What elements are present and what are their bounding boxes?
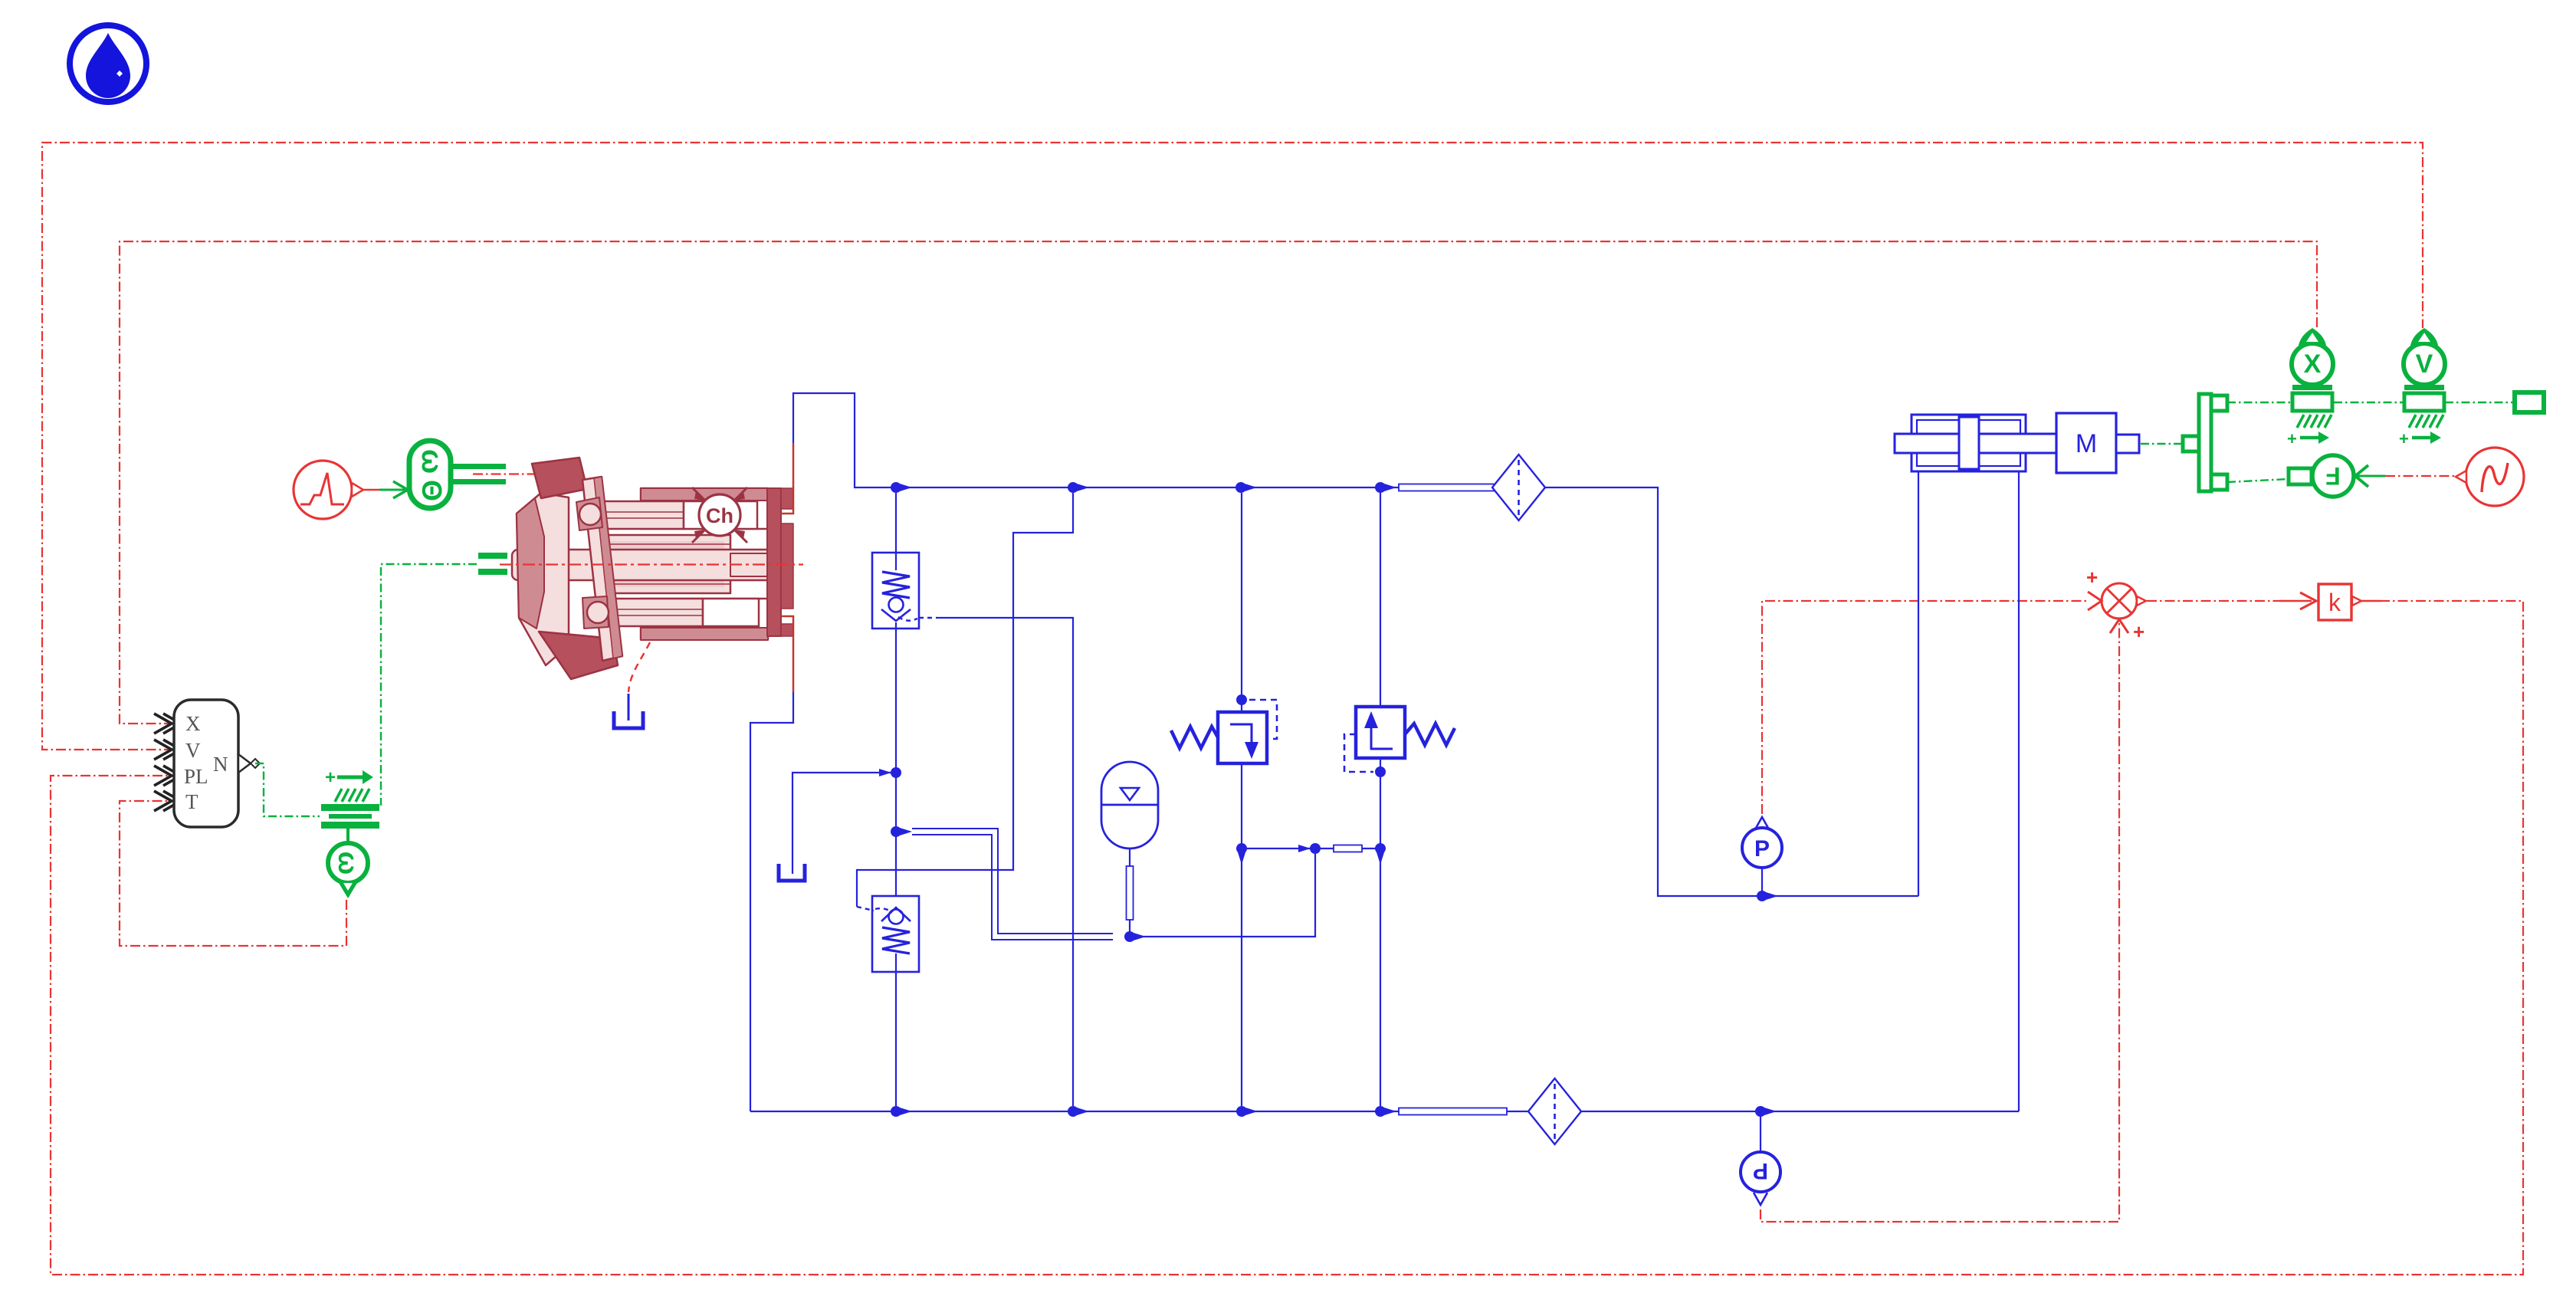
junction cylinder head line / P sensor	[1757, 891, 1778, 901]
displacement transducer X	[2292, 328, 2333, 385]
svg-text:+: +	[2133, 620, 2144, 643]
junction on pressure bus at relief valve 1	[1235, 482, 1257, 493]
svg-text:+: +	[325, 767, 336, 788]
junction relief valve 1 drain	[1236, 843, 1247, 865]
wire: pump outlet main pressure bus	[894, 487, 1918, 896]
svg-text:F: F	[2325, 462, 2341, 490]
wire: cylinder head side to P line	[1918, 471, 1919, 896]
pilot dashes of relief valve 1	[1249, 700, 1277, 739]
junction at tank branch	[879, 767, 901, 778]
svg-text:k: k	[2328, 589, 2341, 616]
svg-text:ω: ω	[415, 449, 448, 474]
tank: pump case drain reservoir	[614, 711, 643, 728]
hydraulic cylinder (double rod jack)	[1895, 415, 2056, 471]
junction on pressure bus at check valve branch	[891, 482, 912, 493]
gain block k	[2318, 584, 2381, 620]
wire: signal to speed converter (green)	[379, 481, 408, 498]
pressure sensor p (inverted)	[1741, 1114, 1780, 1205]
svg-text:X: X	[2304, 350, 2322, 379]
end stop element	[2515, 392, 2544, 412]
mechanical bracket (lever plate)	[2183, 394, 2227, 491]
svg-text:+: +	[2287, 429, 2297, 448]
relief valve RV2 (pressure relief, arrow up)	[1356, 707, 1405, 758]
svg-text:M: M	[2076, 429, 2097, 458]
pipe: hydraulic line element on return bus	[1399, 1108, 1507, 1115]
junction return bus at pilot line	[1068, 1106, 1089, 1117]
junction relief valve 2 drain bottom	[1375, 843, 1386, 865]
rotary velocity source (omega)	[328, 828, 368, 898]
slider mount under V	[2399, 385, 2444, 448]
junction on pressure bus at pilot branch	[1068, 482, 1089, 493]
wire: bracket to force sensor (green)	[2227, 479, 2289, 482]
wire: pump outlet port to main line (red->blue)	[781, 393, 894, 514]
pipe: hydraulic line element on pressure bus	[1399, 484, 1507, 491]
wire: check valve 1 pilot line	[919, 618, 1073, 1106]
wire: V sensor feedback outer loop (red)	[42, 143, 2423, 750]
wire: swash pivot to rotary load (green)	[381, 564, 477, 806]
wire: accumulator riser	[1130, 854, 1315, 937]
wire: controller N output to rotary load (green)	[255, 763, 320, 816]
filter: diamond element on pressure bus	[1492, 455, 1545, 520]
wire: cylinder rod side to return line	[2018, 471, 2020, 1111]
check valve CV2 (mirrored, pilot operated)	[872, 896, 919, 972]
junction on pressure bus at relief valve 2	[1375, 482, 1396, 493]
force actuator F	[2289, 455, 2385, 497]
svg-text:X: X	[185, 712, 201, 735]
svg-text:PL: PL	[184, 765, 208, 788]
wire: main return bus	[750, 1111, 2019, 1112]
controller block XVPLT->N	[174, 700, 260, 827]
filter: diamond element on return bus	[1528, 1078, 1581, 1144]
orifice on drain header	[1334, 845, 1362, 852]
junction accumulator riser	[1298, 843, 1321, 854]
junction relief valve 1 pilot	[1236, 694, 1247, 705]
wire: check valve 1 to suction junction	[895, 629, 897, 1106]
summing junction	[2086, 566, 2146, 643]
rotary port at pump swash pivot	[478, 553, 507, 575]
wire: bus to relief valve 2	[1380, 493, 1381, 707]
velocity transducer V	[2404, 328, 2445, 385]
XVPLT block input arrows	[154, 714, 181, 811]
svg-text:V: V	[185, 739, 201, 762]
wire: bus to check valve 1	[895, 493, 897, 553]
wire: summing junction to gain k (red)	[2147, 592, 2316, 609]
junction relief valve 2 drain top	[1375, 766, 1386, 777]
svg-text:Θ: Θ	[416, 480, 448, 501]
wire: junction to reservoir tank	[792, 773, 891, 874]
mass block M	[2056, 413, 2139, 473]
junction accumulator stem	[1124, 931, 1146, 942]
pilot dashes of relief valve 2	[1344, 734, 1373, 772]
rotary load: ground + shaft bars	[321, 767, 379, 829]
svg-text:Ch: Ch	[706, 504, 733, 527]
accumulator (gas loaded)	[1101, 762, 1158, 932]
wire: check valve 2 pilot line	[857, 493, 1073, 911]
pressure sensor P	[1742, 817, 1782, 893]
junction return line / p sensor	[1755, 1106, 1777, 1117]
relief valve RV1 (pressure relief, arrow down)	[1218, 712, 1267, 763]
wire: sine source to force actuator (red)	[2385, 475, 2457, 477]
pump case drain line	[628, 642, 650, 720]
wire: bus to relief valve 1	[1241, 493, 1242, 712]
signal source: piecewise ramp input	[294, 461, 379, 519]
wire: omega sensor to T input (red)	[120, 801, 346, 946]
junction return bus at relief valve 2 drain	[1375, 1106, 1396, 1117]
junction return bus at relief valve 1 drain	[1236, 1106, 1258, 1117]
wire: relief valve 2 to drain header	[1380, 758, 1381, 1106]
wire: relief valve 1 to drain header	[1241, 763, 1242, 1106]
svg-text:V: V	[2416, 350, 2433, 379]
wire: p sensor to summing junction (red)	[1761, 622, 2119, 1222]
svg-text:N: N	[213, 753, 228, 776]
converter: signal to rotary speed (w/theta)	[409, 441, 537, 508]
pump control chamber Ch	[692, 487, 747, 543]
wire: pump suction port to return line (red->blue)	[750, 616, 793, 1111]
wire: bracket to X/V sliders (green)	[2227, 402, 2512, 403]
spring of relief valve 2	[1405, 724, 1455, 745]
svg-text:+: +	[2086, 566, 2098, 589]
svg-text:P: P	[1753, 1158, 1768, 1183]
sine wave source	[2456, 448, 2524, 506]
junction at hose branch	[891, 826, 912, 837]
junction return bus at check valve 2	[891, 1106, 912, 1117]
svg-text:T: T	[185, 790, 199, 813]
wire: drain header	[1242, 848, 1380, 849]
tank: boost reservoir	[779, 864, 805, 881]
wire: P sensor to summing junction (red)	[1762, 601, 2087, 814]
spring of relief valve 1	[1171, 727, 1218, 748]
wire: gain k output to PL input loop (red)	[51, 601, 2523, 1275]
pipe: hose from junction to accumulator line	[912, 829, 1113, 940]
svg-text:P: P	[1754, 836, 1770, 862]
check valve CV1 (spring loaded, pilot operated)	[872, 553, 919, 629]
wire: mass to bracket (green)	[2141, 443, 2189, 445]
logo: blue drop icon	[70, 25, 146, 102]
wire: X sensor feedback inner loop (red)	[120, 241, 2317, 724]
svg-text:+: +	[2399, 429, 2409, 448]
svg-text:ω: ω	[333, 852, 364, 875]
slider mount under X	[2287, 385, 2332, 448]
pump: variable displacement axial piston pump (detailed picture)	[500, 458, 803, 679]
